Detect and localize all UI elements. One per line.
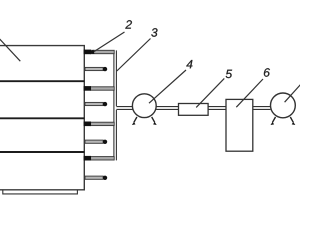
- label 2: [125, 20, 132, 28]
- pump U4 left foot: [132, 117, 137, 125]
- pump U4 right foot: [152, 117, 157, 125]
- manifold wall outer line: [115, 50, 117, 160]
- pump U7 right foot: [290, 117, 295, 125]
- leader line 7 (label off-canvas): [285, 84, 301, 102]
- shelf divider line A: [0, 80, 84, 82]
- spray pipe A4 with end dot: [85, 176, 107, 180]
- label 5: [226, 70, 232, 78]
- pipe segment filter 5 to tank 6: [208, 107, 226, 110]
- label 4: [186, 60, 192, 68]
- leader line 5: [196, 78, 224, 107]
- bottom tray: [3, 190, 78, 194]
- shelf divider line B: [0, 117, 84, 119]
- manifold wall inner line: [113, 50, 115, 160]
- pump U4 circle: [132, 94, 156, 118]
- shelf divider line C: [0, 151, 84, 153]
- pipe segment tank 6 to pump 7: [253, 107, 271, 110]
- furnace box U1: [0, 46, 84, 190]
- spray pipe A3 with end dot: [85, 140, 107, 144]
- nozzle B3: [84, 122, 115, 127]
- pipe segment pump 4 to filter 5: [156, 107, 178, 110]
- label 3: [151, 28, 157, 37]
- nozzle B1 (top, with black inlet block): [84, 50, 115, 55]
- pipe segment wall to pump 4: [116, 107, 132, 110]
- tank U6: [226, 99, 253, 151]
- leader line 1 (label off-canvas): [0, 36, 20, 61]
- label 6: [264, 68, 270, 77]
- leader line 3: [117, 39, 151, 72]
- nozzle B4: [84, 156, 115, 161]
- spray pipe A2 with end dot: [85, 102, 107, 106]
- leader line 6: [236, 79, 263, 107]
- spray pipe A1 with end dot: [85, 67, 107, 71]
- pump U7 circle: [271, 93, 296, 118]
- filter box U5: [179, 104, 209, 116]
- leader line 2 with arrowhead: [86, 32, 125, 54]
- pump U7 left foot: [271, 117, 276, 125]
- nozzle B2: [84, 86, 115, 91]
- leader line 4: [149, 70, 186, 103]
